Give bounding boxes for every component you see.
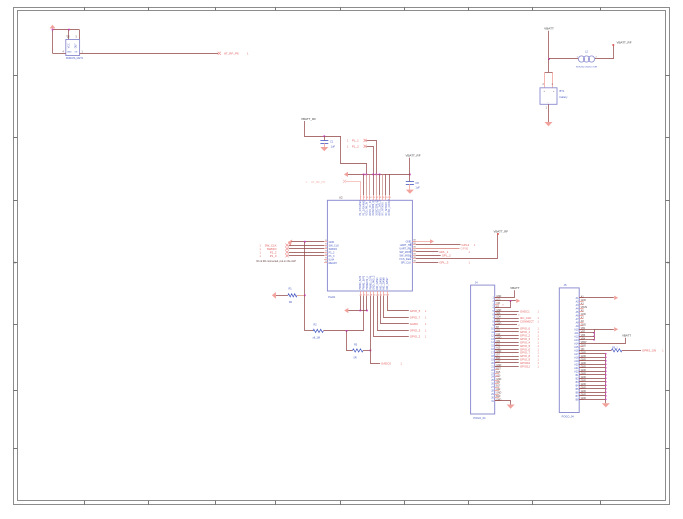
svg-text:R1 & R2 connected, put on the: R1 & R2 connected, put on the ALP xyxy=(257,260,297,263)
wire top pin drop 3 xyxy=(366,174,368,195)
wire J4 GPIO_2 xyxy=(495,335,519,337)
wire VBATT down xyxy=(548,31,550,60)
wire bottom pin3 xyxy=(366,296,368,311)
svg-text:SPI_CLK: SPI_CLK xyxy=(401,261,412,264)
wire J5 pin27 gnd xyxy=(579,388,606,390)
wire top pin drop 8 xyxy=(382,174,384,195)
svg-text:VIO: VIO xyxy=(496,303,500,305)
svg-text:GPIO_7: GPIO_7 xyxy=(410,316,421,320)
svg-text:A14: A14 xyxy=(574,342,579,345)
svg-text:Pwr01: Pwr01 xyxy=(328,296,336,299)
svg-text:GND: GND xyxy=(496,393,501,395)
svg-text:POGO_04: POGO_04 xyxy=(473,416,486,420)
note text xyxy=(257,260,297,263)
net label P1_3 xyxy=(260,254,289,258)
svg-text:A17: A17 xyxy=(574,353,579,356)
net label GPL4 xyxy=(462,243,477,247)
pin stubs U2 bottom xyxy=(361,291,388,296)
wire J5 pin22 gnd xyxy=(579,371,606,373)
capacitor C8 xyxy=(406,181,420,190)
wire J4 GPIO11 xyxy=(495,366,519,368)
wire U1 pin3 top xyxy=(79,30,81,40)
svg-text:GND: GND xyxy=(581,314,586,316)
svg-text:1uF: 1uF xyxy=(331,144,336,148)
wire J5 VBATT elbow xyxy=(579,338,625,344)
wire bottom pin2 xyxy=(363,296,365,331)
battery BT1 xyxy=(540,88,568,105)
svg-text:OUT: OUT xyxy=(76,43,78,48)
svg-text:WOUND_INDUCTOR: WOUND_INDUCTOR xyxy=(576,67,598,69)
svg-text:FB_1: FB_1 xyxy=(612,348,618,350)
svg-text:GPIO_5: GPIO_5 xyxy=(410,309,421,313)
net label VBATT J4 xyxy=(510,286,520,290)
wire AT_RF_P6 net xyxy=(80,53,218,55)
wire right row6 VBATT_RF xyxy=(416,234,498,259)
port arrow left row1 xyxy=(288,240,293,247)
wire bottom GPIO_3 xyxy=(378,296,409,331)
label U2 partname xyxy=(328,296,336,299)
wire bottom GADC xyxy=(381,296,409,324)
net label GPIO10 J4 xyxy=(520,361,540,365)
net label GPIO_3 xyxy=(410,329,427,333)
net label GPIO_6 J4 xyxy=(520,347,540,351)
wire FB to GPRS_ON xyxy=(622,350,641,352)
net label SW_CLK xyxy=(260,243,289,247)
wire SWDIO xyxy=(289,248,324,250)
wire J5 pin13 xyxy=(579,339,594,341)
wire J5 pin21 gnd xyxy=(579,367,606,369)
wire U1 pin5 top xyxy=(68,30,70,40)
svg-text:GADC0: GADC0 xyxy=(381,362,391,366)
net label GADC xyxy=(410,322,427,326)
wire J5 pin25 gnd xyxy=(579,381,606,383)
svg-text:VBUS: VBUS xyxy=(581,307,588,309)
svg-text:C8: C8 xyxy=(415,181,419,185)
wire bottom power rail xyxy=(348,310,368,312)
pin numbers U2 bottom xyxy=(359,295,389,297)
net label I2C_CLK J4 xyxy=(520,316,540,320)
power arrow bottom rail xyxy=(344,308,348,313)
net label GPL_3 xyxy=(439,261,470,265)
ground J5 xyxy=(602,403,610,407)
svg-text:GPIO_2: GPIO_2 xyxy=(410,334,421,338)
svg-text:A20: A20 xyxy=(496,374,501,377)
net stub J4 pin6 xyxy=(495,315,521,317)
pin numbers BT1 xyxy=(543,84,554,86)
net label GPIO_1 J4 xyxy=(520,330,540,334)
wire top pin drop 7 xyxy=(379,174,381,195)
wire top pin drop 5 xyxy=(373,174,375,195)
net label CONNECT J4 xyxy=(520,320,540,324)
net label GADC1 J4 xyxy=(520,309,540,313)
ground C1 xyxy=(320,147,328,151)
wire J4 gnd xyxy=(495,401,511,405)
net label GPIO_7 xyxy=(410,316,427,320)
wire top pin drop 6 xyxy=(376,174,378,195)
svg-text:1uF: 1uF xyxy=(415,185,420,189)
wire arrow to R1 xyxy=(276,295,288,297)
wire J5 pin26 gnd xyxy=(579,385,606,387)
wire VCC rail U1 xyxy=(52,29,80,54)
net label VBATT_RF left xyxy=(301,117,316,121)
wire right row5 xyxy=(416,255,441,257)
net label VBATT_RF top xyxy=(612,41,631,46)
ferrite bead FB1 xyxy=(611,348,622,352)
pin stubs U2 right xyxy=(412,240,416,263)
svg-text:GP05: GP05 xyxy=(461,247,469,251)
wire right row7 xyxy=(416,262,439,264)
port AT_RF_P6 xyxy=(218,52,249,56)
wire J5 pin29 gnd xyxy=(579,395,606,397)
net label GPIO_9 J4 xyxy=(520,358,540,362)
wire left row1 xyxy=(291,241,324,243)
wire J4 I2C_CLK xyxy=(495,318,519,320)
port AT_RF_P6 faded xyxy=(306,180,347,184)
wire J5 pin1 power xyxy=(579,296,618,300)
wire top pin drop 2 xyxy=(363,174,365,195)
svg-text:x8_1M: x8_1M xyxy=(313,336,321,339)
wire J5 pin23 gnd xyxy=(579,374,606,376)
svg-text:GPL_3: GPL_3 xyxy=(439,261,448,265)
wire J5 pin10 xyxy=(579,329,594,331)
wire J5 pin18 gnd xyxy=(579,357,606,359)
net label GPIO_8 J4 xyxy=(520,354,540,358)
label U1 partname xyxy=(66,57,84,60)
svg-text:A21: A21 xyxy=(574,367,579,370)
svg-text:GADC1: GADC1 xyxy=(520,309,530,313)
svg-text:B17: B17 xyxy=(496,386,501,388)
net label GPL_1 xyxy=(439,250,470,254)
svg-text:0R: 0R xyxy=(354,356,357,359)
svg-text:VBATT_RF: VBATT_RF xyxy=(616,41,631,45)
svg-text:VBATT_RF: VBATT_RF xyxy=(405,153,420,157)
wire J4 GPIO_5 xyxy=(495,345,519,347)
svg-text:B19: B19 xyxy=(496,396,501,398)
wire R2 to pin xyxy=(323,330,363,332)
svg-text:A13: A13 xyxy=(574,339,579,342)
net label GPIO11 J4 xyxy=(520,365,540,369)
wire J4 GPIO_4 xyxy=(495,342,519,344)
wire J4 GPIO_6 xyxy=(495,349,519,351)
resistor R3 xyxy=(353,343,364,359)
power arrow right row1 xyxy=(412,239,434,243)
svg-text:DVDD_CORE1: DVDD_CORE1 xyxy=(388,198,391,215)
wire J5 pin24 gnd xyxy=(579,378,606,380)
wire J5 pin28 gnd xyxy=(579,392,606,394)
wire J4 pin1 VBATT xyxy=(495,290,515,297)
resistor R1 xyxy=(288,288,297,305)
wire top power rail xyxy=(348,174,411,176)
net label GADC0 xyxy=(380,362,403,366)
wire J4 GPIO_9 xyxy=(495,359,519,361)
net stub J4 pin3 xyxy=(502,304,504,306)
ground battery xyxy=(545,122,553,126)
port arrow R1 left xyxy=(272,292,276,299)
wire J5 vbatt bus xyxy=(593,329,595,340)
pin stubs U2 left xyxy=(324,240,327,263)
wire right row4 xyxy=(416,251,439,253)
svg-text:*2E: *2E xyxy=(66,37,70,39)
connector J4 body xyxy=(471,281,495,421)
svg-text:SPI_UART_SEL: SPI_UART_SEL xyxy=(410,242,413,259)
pin numbers U1 top xyxy=(66,37,78,39)
svg-text:GPL_2: GPL_2 xyxy=(442,254,451,258)
wire J5 pin17 gnd xyxy=(579,353,606,355)
ground C8 xyxy=(406,190,414,194)
wire right row3 xyxy=(416,248,460,250)
wire bottom pin4 xyxy=(370,296,372,351)
svg-text:A20: A20 xyxy=(574,363,579,366)
svg-text:VCC: VCC xyxy=(68,43,70,48)
op-amp U2 radio IC body xyxy=(327,198,412,291)
wire battery to gnd xyxy=(546,104,549,122)
wire J5 pin30 gnd xyxy=(579,399,606,401)
net label GPIO_5 J4 xyxy=(520,344,540,348)
wire AT_RF_P6 faded xyxy=(346,182,361,196)
svg-text:A19: A19 xyxy=(574,360,579,363)
svg-text:READY: READY xyxy=(329,262,338,265)
power arrow top rail xyxy=(344,172,348,177)
net label GPIO_0 J4 xyxy=(520,327,540,331)
svg-text:AIO_3/AN7: AIO_3/AN7 xyxy=(386,277,389,290)
wire J4 GPIO_7 xyxy=(495,352,519,354)
wire top pin drop 10 xyxy=(389,174,391,195)
wire bottom pin1 xyxy=(360,296,362,311)
pin stubs U2 top xyxy=(361,195,390,200)
wire J4 CONNECT xyxy=(495,321,519,323)
net label GP05 xyxy=(461,247,469,251)
svg-text:A18: A18 xyxy=(574,356,579,359)
svg-text:MURATA_GMT1: MURATA_GMT1 xyxy=(66,57,84,60)
svg-text:GPIO11: GPIO11 xyxy=(520,365,530,369)
svg-text:VBATT_RF: VBATT_RF xyxy=(494,229,509,233)
wire J4 pin2-4 strap xyxy=(495,301,511,308)
svg-text:GPRS_ON: GPRS_ON xyxy=(642,348,656,352)
net label PL_1 xyxy=(347,139,367,143)
net label VBATT top xyxy=(544,27,554,31)
wire U1 left pin xyxy=(53,53,66,55)
svg-text:VBATT: VBATT xyxy=(622,334,631,338)
IC U1 body xyxy=(66,40,80,56)
net label VBATT_RF right xyxy=(405,153,420,157)
wire top pin drop 9 xyxy=(385,174,387,195)
wire R3 drop xyxy=(347,331,353,351)
svg-text:A15: A15 xyxy=(574,346,579,349)
wire bottom GPIO_7 xyxy=(384,296,409,318)
wire to inductor xyxy=(549,58,578,60)
wire bottom GPIO_2 xyxy=(374,296,409,337)
net label GPIO_5 xyxy=(410,309,427,313)
pin stubs J4 xyxy=(491,296,501,403)
svg-text:A10: A10 xyxy=(496,298,501,301)
wire J5 bus arrow xyxy=(594,327,618,331)
pin stubs J5 xyxy=(574,295,587,401)
wire column to R2 xyxy=(305,295,314,331)
connector J5 body xyxy=(559,283,579,419)
wire VBATT_RF to C1 rail xyxy=(305,121,341,137)
pin number U1 pin1 xyxy=(82,51,84,53)
wire R1 to column xyxy=(297,294,306,296)
svg-text:P1_3: P1_3 xyxy=(270,254,277,258)
svg-text:GND: GND xyxy=(581,345,586,347)
wire J4 GPIO_3 xyxy=(495,338,519,340)
wire J4 GPIO_8 xyxy=(495,356,519,358)
resistor R2 xyxy=(313,323,324,339)
net label GPIO_4 J4 xyxy=(520,340,540,344)
net label GPIO_2 J4 xyxy=(520,333,540,337)
svg-text:B15: B15 xyxy=(496,372,501,374)
wire inductor to VBATT_RF xyxy=(595,45,614,59)
wire J4 GPIO_0 xyxy=(495,328,519,330)
svg-text:A17: A17 xyxy=(496,361,501,364)
wire J5 gnd bus xyxy=(605,353,606,403)
net label GPIO_7 J4 xyxy=(520,351,540,355)
svg-text:A12: A12 xyxy=(574,335,579,338)
svg-text:RST: RST xyxy=(496,368,501,370)
svg-text:PL_1: PL_1 xyxy=(352,139,359,143)
wire J5 pin11 xyxy=(579,332,594,334)
svg-text:A22: A22 xyxy=(496,388,501,391)
wire right row2 xyxy=(416,244,461,246)
wire J4 pin2 power xyxy=(495,299,521,303)
pin numbers U2 top xyxy=(360,197,391,199)
svg-text:VBATT_RF: VBATT_RF xyxy=(301,117,316,121)
wire P1_3 xyxy=(289,255,324,257)
wire left column xyxy=(304,242,306,296)
wire GADC0 elbow xyxy=(371,350,381,363)
svg-text:VBATT: VBATT xyxy=(510,286,520,290)
wire J5 pin19 gnd xyxy=(579,360,606,362)
net label GPL_2 xyxy=(442,254,451,258)
wire P1_2 xyxy=(289,252,324,254)
wire PL_1 xyxy=(366,141,376,175)
svg-text:GADC: GADC xyxy=(410,322,418,326)
wire J5 pin12 xyxy=(579,336,594,338)
wire J5 FB row xyxy=(579,350,611,352)
wire J4 GPIO10 xyxy=(495,362,519,364)
svg-text:GPIO_3: GPIO_3 xyxy=(410,329,421,333)
ground J4 xyxy=(507,405,515,409)
inductor L2 xyxy=(576,50,598,68)
net label VBATT_RF mid xyxy=(494,229,509,235)
wire J5 pin20 gnd xyxy=(579,364,606,366)
power symbol VCC U1 xyxy=(50,25,56,30)
wire bottom GPIO_5 xyxy=(388,296,409,311)
wire battery fork xyxy=(545,59,554,88)
svg-text:POGO_04: POGO_04 xyxy=(562,415,575,419)
wire SW_CLK xyxy=(289,245,324,247)
svg-text:BT1: BT1 xyxy=(560,89,565,93)
svg-text:A16: A16 xyxy=(574,349,579,352)
wire VBATT_RF to C8 xyxy=(409,158,411,182)
svg-text:J4: J4 xyxy=(475,281,478,285)
svg-text:J5: J5 xyxy=(564,283,567,287)
wire R3 to pin xyxy=(363,350,371,352)
svg-text:-: - xyxy=(548,101,549,104)
net label SWDIO xyxy=(260,247,289,251)
net stub J4 pin9 xyxy=(495,325,521,328)
svg-text:0R: 0R xyxy=(289,301,292,304)
svg-text:GND: GND xyxy=(581,324,586,326)
svg-text:GND: GND xyxy=(496,379,501,381)
pin number U1 pin4 xyxy=(63,51,65,53)
wire C1 rail elbow xyxy=(341,136,367,174)
net label GPIO_3 J4 xyxy=(520,337,540,341)
wire top pin drop 4 xyxy=(369,174,371,195)
net label VBATT J5 xyxy=(622,334,631,338)
wire J4 GPIO_1 xyxy=(495,331,519,333)
svg-text:CONNECT: CONNECT xyxy=(520,320,534,324)
net label GPIO_2 xyxy=(410,334,427,338)
capacitor C1 xyxy=(320,136,335,148)
net label PL_2 xyxy=(347,145,367,149)
svg-text:A22: A22 xyxy=(574,370,579,373)
net label P1_2 xyxy=(260,250,289,254)
wire J4 GADC1 xyxy=(495,311,519,313)
svg-text:VBATT: VBATT xyxy=(544,27,554,31)
svg-text:AT_RF_P6: AT_RF_P6 xyxy=(311,180,325,184)
svg-text:GND: GND xyxy=(581,300,586,302)
svg-text:C1: C1 xyxy=(330,140,334,144)
svg-text:A10: A10 xyxy=(574,328,579,331)
svg-text:AT_RF_P6: AT_RF_P6 xyxy=(224,52,239,56)
designator U2 xyxy=(339,195,343,199)
svg-text:GND: GND xyxy=(67,51,72,53)
svg-text:PL_2: PL_2 xyxy=(352,145,359,149)
wire PL_2 xyxy=(366,147,373,175)
net label GPRS_ON xyxy=(642,348,664,352)
svg-text:U2: U2 xyxy=(339,195,343,199)
svg-text:battery: battery xyxy=(560,95,569,99)
